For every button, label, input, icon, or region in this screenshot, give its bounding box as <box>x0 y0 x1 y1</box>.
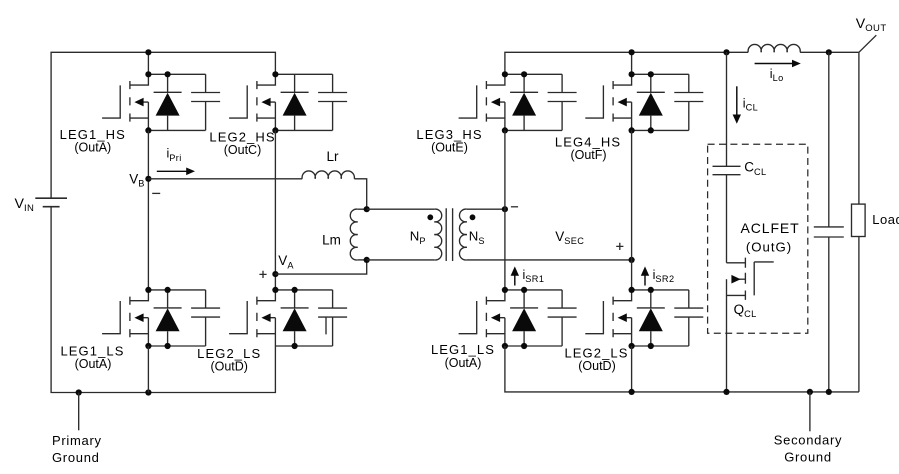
winding NS <box>467 208 505 210</box>
resistor Load <box>852 204 866 236</box>
arrow iLo <box>755 63 793 65</box>
wire: Lr to transformer primary top <box>354 179 366 209</box>
wire: LEG1_LS(pri) cell rails <box>148 290 205 346</box>
svg-text:iCL: iCL <box>743 96 758 112</box>
node: LEG3_HS diode cathode <box>521 71 527 77</box>
wire: LEG1_LS(sec) cell rails <box>505 290 562 346</box>
node: transformer primary top <box>364 206 370 212</box>
node: LEG2_LS(sec) to ground rail <box>629 389 635 395</box>
svg-text:Ground: Ground <box>52 450 100 465</box>
node: LEG3_HS source <box>502 127 508 133</box>
transistor LEG4_HS <box>585 74 631 130</box>
wire: Vin- down to primary ground, along to LEG2_LS source <box>51 207 275 393</box>
node: LEG1_LS(sec) diode anode <box>521 343 527 349</box>
transistor LEG1_HS <box>102 74 148 130</box>
svg-text:iPri: iPri <box>167 147 182 163</box>
node: LEG4_HS drain <box>629 71 635 77</box>
svg-text:VIN: VIN <box>15 196 35 214</box>
svg-text:NP: NP <box>410 229 426 246</box>
body diode of LEG3_HS <box>510 74 538 130</box>
node: top rail / LEG1_HS drain junction <box>145 49 151 55</box>
arrow iCL <box>736 86 738 115</box>
arrow iPri <box>157 170 187 172</box>
wire: LEG1_HS drain stub <box>147 52 149 74</box>
node: LEG2_HS drain <box>272 71 278 77</box>
wire: LEG2_HS cell rails <box>275 74 332 130</box>
svg-text:(OutG): (OutG) <box>746 240 792 255</box>
transformer core <box>446 208 452 261</box>
body diode of LEG2_HS <box>281 74 309 130</box>
wire: input positive rail (Vin+ to top rail, across to LEG2_HS) <box>51 52 275 198</box>
wire: LEG4_HS cell rails <box>632 74 689 130</box>
node: LEG1_LS(sec) diode cathode <box>521 287 527 293</box>
node: LEG3_HS drain <box>502 71 508 77</box>
node: secondary ground stub junction <box>807 389 813 395</box>
wire: LEG1_LS(pri) source to ground rail <box>147 346 149 393</box>
wire: load branch bottom <box>858 237 860 392</box>
inductor Lm (magnetizing) <box>358 208 367 210</box>
svg-text:(OutF): (OutF) <box>570 148 606 162</box>
node: LEG4_HS source <box>629 127 635 133</box>
wire: LEG2_LS(sec) source to ground rail <box>631 346 633 392</box>
node: LEG1_HS source <box>145 127 151 133</box>
node: LEG1_HS diode cathode <box>165 71 171 77</box>
node: LEG2_LS(pri) diode anode <box>292 343 298 349</box>
body diode of LEG1_HS <box>154 74 182 130</box>
node: LEG2_LS(sec) drain <box>629 287 635 293</box>
svg-text:CCL: CCL <box>744 160 766 177</box>
transistor LEG2_LS (primary) <box>229 290 275 346</box>
node: LEG1_LS(pri) source <box>145 343 151 349</box>
svg-text:(OutE): (OutE) <box>431 141 468 155</box>
svg-text:iSR2: iSR2 <box>653 268 675 284</box>
capacitor across LEG4_HS <box>674 74 703 130</box>
wire: load branch top <box>858 52 860 204</box>
polarity minus at V_B <box>152 192 160 194</box>
node: LEG1_LS(pri) diode cathode <box>165 287 171 293</box>
node: LEG1_LS(sec) source <box>502 343 508 349</box>
polarity dot NS <box>470 214 476 220</box>
transistor LEG1_LS (secondary SR) <box>459 290 505 346</box>
node: primary ground stub junction <box>76 389 82 395</box>
capacitor CCL <box>713 166 741 174</box>
node: NS top to rectifier left leg <box>502 206 508 212</box>
svg-text:NS: NS <box>469 229 485 246</box>
node: LEG1_LS(pri) drain <box>145 287 151 293</box>
transistor QCL ACLFET <box>727 262 746 264</box>
wire: secondary top rail <box>505 52 859 74</box>
wire: clamp branch from top rail to CCL <box>726 52 728 166</box>
battery V1 long plate <box>35 197 67 199</box>
svg-text:Lr: Lr <box>326 149 339 164</box>
wire: LEG2_LS(sec) cell rails <box>632 290 689 346</box>
node: LEG2_LS(sec) diode cathode <box>648 287 654 293</box>
capacitor across LEG2_HS <box>318 74 347 130</box>
node: NS bottom to rectifier right leg <box>629 257 635 263</box>
terminal VOUT <box>859 35 876 52</box>
svg-text:Lm: Lm <box>322 232 341 247</box>
wire: LEG4_HS source down to VSEC+ and LEG2_LS(sec) <box>631 130 633 290</box>
wire: LEG2_LS(pri) cell rails <box>275 290 332 346</box>
node: top rail / LEG4_HS <box>629 49 635 55</box>
arrow iSR1 <box>514 275 516 285</box>
svg-text:Primary: Primary <box>52 433 102 448</box>
body diode of LEG2_LS (primary) <box>281 290 309 346</box>
svg-text:VSEC: VSEC <box>555 229 584 246</box>
svg-text:Secondary: Secondary <box>774 433 842 448</box>
capacitor across LEG1_HS <box>191 74 220 130</box>
transistor LEG3_HS <box>459 74 505 130</box>
node: ACLFET source to ground rail <box>723 389 729 395</box>
node: LEG2_LS(sec) diode anode <box>648 343 654 349</box>
capacitor across LEG2_LS (primary) <box>318 290 347 346</box>
node: output cap to ground rail <box>826 389 832 395</box>
svg-text:VOUT: VOUT <box>856 16 887 34</box>
wire: LEG3_HS cell rails <box>505 74 562 130</box>
transistor LEG1_LS (primary) <box>102 290 148 346</box>
polarity plus at VSEC <box>616 243 623 250</box>
wire: secondary ground stub <box>809 392 811 431</box>
node: LEG2_LS(pri) drain <box>272 287 278 293</box>
svg-text:VB: VB <box>129 171 145 188</box>
node: LEG2_LS(sec) source <box>629 343 635 349</box>
node: LEG2_HS source <box>272 127 278 133</box>
node: LEG4_HS diode cathode top <box>648 71 654 77</box>
body diode of LEG1_LS (primary) <box>154 290 182 346</box>
node: LEG1_LS(sec) drain <box>502 287 508 293</box>
wire: V_B rail to Lr <box>148 178 302 180</box>
node: LEG4_HS diode anode bottom <box>648 127 654 133</box>
wire: LEG4_HS drain stub <box>631 52 633 74</box>
svg-text:(OutA): (OutA) <box>75 357 112 371</box>
polarity plus at V_A <box>259 271 266 278</box>
node V_A <box>272 271 278 277</box>
inductor Lo (output) <box>748 44 800 52</box>
node: LEG2_LS(pri) diode cathode <box>292 287 298 293</box>
body diode of LEG2_LS (secondary) <box>637 290 665 346</box>
capacitor across LEG1_LS (primary) <box>191 290 220 346</box>
node: transformer primary bottom <box>364 257 370 263</box>
svg-text:Ground: Ground <box>784 450 832 465</box>
arrow iSR2 <box>644 275 646 285</box>
transistor LEG2_LS (secondary SR) <box>585 290 631 346</box>
svg-text:(OutD): (OutD) <box>578 359 616 373</box>
wire: LEG2_HS source down through V_A to LEG2_LS drain <box>274 130 276 290</box>
wire: LEG3_HS source down to NS top and LEG1_LS(sec) <box>504 130 506 290</box>
battery V1 short plate <box>43 206 60 208</box>
svg-text:(OutD): (OutD) <box>210 360 248 374</box>
node: top rail / clamp branch <box>723 49 729 55</box>
wire: output capacitor branch top <box>828 52 830 227</box>
active clamp dashed enclosure <box>708 144 808 333</box>
node: LEG1_LS(pri) diode anode <box>165 343 171 349</box>
node V_B <box>145 176 151 182</box>
polarity dot NP <box>427 214 433 220</box>
wire: LEG1_LS(sec) source to secondary ground rail <box>505 346 859 392</box>
svg-text:Load: Load <box>872 212 899 227</box>
wire: primary ground stub <box>78 393 80 431</box>
wire: CCL to ACLFET drain <box>726 175 728 263</box>
capacitor across LEG3_HS <box>548 74 577 130</box>
capacitor across LEG1_LS (secondary) <box>548 290 577 346</box>
capacitor across LEG2_LS (secondary) <box>674 290 703 346</box>
inductor Lr <box>302 171 354 179</box>
svg-text:(OutC): (OutC) <box>224 143 262 157</box>
svg-text:iSR1: iSR1 <box>523 268 545 284</box>
node: LEG1_HS drain <box>145 71 151 77</box>
node: LEG1_LS source to ground rail <box>145 389 151 395</box>
winding NP <box>367 208 435 210</box>
polarity minus at VSEC <box>511 206 518 208</box>
svg-text:QCL: QCL <box>734 302 757 319</box>
wire: LEG1_HS source to V_B to LEG1_LS drain <box>147 130 149 290</box>
body diode of LEG1_LS (secondary) <box>510 290 538 346</box>
wire: output capacitor branch bottom <box>828 237 830 392</box>
wire: LEG1_HS cell rails <box>148 74 205 130</box>
capacitor Cout plates <box>814 227 844 237</box>
svg-text:ACLFET: ACLFET <box>741 220 800 236</box>
node: top rail / output capacitor <box>826 49 832 55</box>
transistor LEG2_HS <box>229 74 275 130</box>
wire: V_A rail to transformer primary bottom <box>275 260 366 274</box>
svg-text:iLo: iLo <box>770 67 784 83</box>
svg-text:VA: VA <box>278 253 294 270</box>
svg-text:(OutA): (OutA) <box>445 356 482 370</box>
body diode of LEG4_HS <box>637 74 665 130</box>
svg-text:(OutA): (OutA) <box>74 141 111 155</box>
